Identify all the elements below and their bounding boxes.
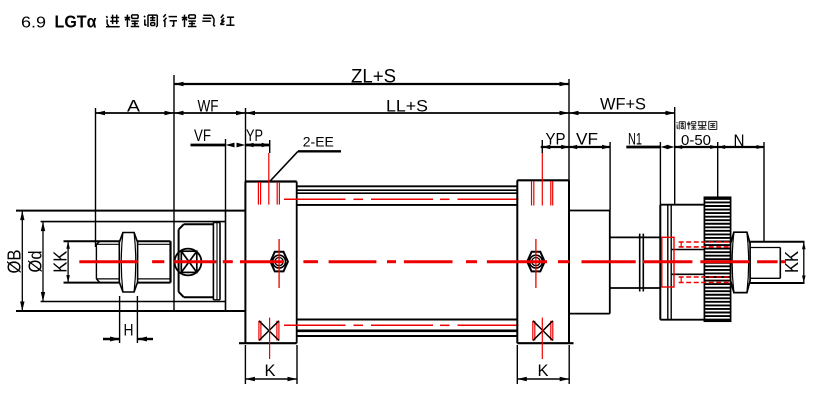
cap top edge (184, 223, 214, 225)
K rear ext lines (516, 345, 518, 384)
dim OB (21, 211, 23, 311)
left rod outer bottom (64, 282, 171, 284)
rear flange bottom edge (517, 342, 573, 344)
rear nut red crosshair (535, 239, 537, 288)
svg-text:N1: N1 (628, 130, 642, 149)
H ext lines (119, 296, 121, 343)
svg-text:VF: VF (576, 130, 598, 149)
svg-text:6.9: 6.9 (21, 15, 46, 32)
label tiaochengfanwei (676, 121, 679, 124)
left housing inner top (41, 221, 226, 223)
dim KK left (67, 241, 69, 282)
right locknut (731, 232, 751, 292)
left rod tip face (95, 244, 97, 279)
tube top line3 (297, 192, 518, 194)
tube top line4 (297, 204, 518, 206)
hub inner line1 (667, 205, 669, 320)
dim Od (42, 222, 44, 302)
extension line x764 (763, 142, 765, 242)
left housing right wall (225, 211, 227, 311)
K rear dim (517, 378, 569, 380)
front tierod X centerline (269, 318, 271, 359)
svg-text:0-50: 0-50 (681, 133, 711, 149)
svg-text:ØB: ØB (5, 250, 25, 274)
front port centerline (268, 153, 270, 205)
extension line x569 (568, 79, 570, 180)
rear flange right edge (568, 180, 570, 343)
left rod chamfer bottom (96, 279, 100, 283)
svg-text:YP: YP (546, 130, 566, 149)
hub inner line2 (670, 205, 672, 320)
tube bottom line3 (297, 335, 518, 337)
front flange top edge (245, 180, 296, 182)
H dim (103, 338, 120, 340)
adjuster shaft bottom (610, 287, 661, 289)
tierod centerline bottom (284, 324, 346, 326)
dim KK right (803, 242, 805, 283)
tierod centerline top (284, 198, 346, 200)
dim line N (718, 146, 764, 148)
left housing outer top (16, 210, 245, 212)
left rod thread line bottom (96, 278, 170, 280)
right rod thread top (750, 247, 780, 249)
svg-text:ZL+S: ZL+S (351, 67, 396, 88)
cap bottom edge (184, 296, 214, 298)
extension line x269.7 (269, 140, 271, 153)
tube bottom line1 (297, 319, 518, 321)
red hidden line top2 (679, 246, 731, 248)
rear flange top edge (517, 179, 569, 181)
shaft collar line2 (642, 234, 644, 292)
rear flange center nut (527, 252, 545, 272)
dim line YP left (246, 144, 270, 147)
dim arrows tier1 (96, 111, 106, 115)
left rod thread line top (96, 243, 170, 245)
K front ext lines (244, 345, 246, 384)
red hidden line bot1 (679, 276, 731, 278)
svg-text:Ød: Ød (26, 251, 46, 273)
dim line 0-50 (675, 146, 718, 148)
svg-text:K: K (538, 361, 550, 380)
svg-text:YP: YP (246, 126, 263, 145)
right rod outer top (750, 241, 804, 243)
extension line x174 (173, 75, 175, 310)
svg-text:KK: KK (51, 251, 71, 273)
rear port lines top (531, 181, 533, 206)
adjuster shaft top (610, 236, 661, 238)
dim line VF left (191, 144, 226, 147)
cap right lip lines (212, 223, 214, 300)
hub screw line bottom (671, 273, 704, 275)
hub bottom edge (660, 319, 704, 321)
red bracket rect (662, 237, 674, 287)
tube bottom line2 (297, 329, 518, 332)
hub top edge (660, 204, 704, 206)
dim line N1 (626, 146, 660, 149)
tube top line1 (297, 185, 518, 187)
extension line x660.4 (659, 142, 661, 205)
extension line x610.1 (609, 142, 611, 211)
right rod outer bottom (750, 282, 804, 284)
dim line YP-VF right (541, 146, 610, 148)
extension line x542.3 (541, 140, 543, 153)
cap chamfer tl (179, 224, 184, 229)
red hidden vertical (680, 242, 682, 247)
hex nut H on rod (119, 233, 137, 293)
red hidden line top1 (679, 241, 731, 243)
svg-text:VF: VF (194, 126, 211, 145)
svg-text:2-EE: 2-EE (303, 134, 334, 150)
svg-text:K: K (265, 361, 277, 380)
front tierod X red lines (258, 321, 260, 341)
rear tierod X centerline (541, 318, 543, 359)
tube top line2 (297, 189, 518, 191)
svg-text:A: A (127, 97, 141, 116)
centerline main axis (79, 260, 138, 263)
left rod shoulder face (169, 241, 171, 282)
cap body left edge (178, 230, 180, 292)
extension line x245.5 (245, 108, 247, 182)
left rod chamfer top (96, 241, 100, 244)
rear port centerline (541, 153, 543, 206)
extension line x225.5 (225, 139, 227, 211)
hub left face (659, 205, 661, 320)
front flange left edge (244, 182, 246, 344)
svg-text:H: H (124, 321, 134, 340)
front flange center nut (270, 252, 288, 272)
cap chamfer bl (179, 292, 184, 297)
svg-text:LGTα: LGTα (55, 12, 97, 32)
cap circle (175, 249, 202, 276)
rear box right edge (609, 211, 611, 314)
svg-text:LL+S: LL+S (386, 97, 428, 116)
dim line A-WF-LLS-WFS (96, 112, 676, 114)
extension line x95.5 (95, 108, 97, 247)
hub screw line top (671, 249, 704, 251)
shaft collar line1 (639, 234, 641, 292)
svg-text:WF: WF (198, 97, 219, 116)
rear tierod X cross (533, 321, 553, 341)
rear flange left edge (516, 180, 518, 343)
right rod thread bottom (750, 277, 780, 279)
knurled adjusting knob (704, 197, 730, 321)
cap square with cross (181, 251, 197, 272)
rear box bottom (569, 313, 610, 315)
rear box top (569, 210, 610, 212)
left housing inner bottom (41, 301, 226, 303)
extension line x674.7 (674, 107, 676, 205)
red hidden line bot2 (679, 282, 731, 284)
extension line x717.7 (717, 142, 719, 197)
title chinese text (106, 16, 107, 18)
svg-text:WF+S: WF+S (600, 95, 646, 114)
front flange right edge (296, 182, 298, 344)
front flange bottom edge (239, 342, 297, 344)
front nut red crosshair (278, 239, 280, 288)
dim line ZL+S (174, 83, 569, 85)
front port lines top (257, 182, 259, 205)
K front dim (245, 378, 297, 380)
front tierod X cross (259, 321, 279, 341)
left housing outer bottom (16, 310, 245, 312)
right rod end face (779, 248, 781, 279)
rear tierod X red lines (532, 321, 534, 341)
left rod outer top (64, 240, 171, 242)
svg-text:N: N (734, 131, 745, 150)
